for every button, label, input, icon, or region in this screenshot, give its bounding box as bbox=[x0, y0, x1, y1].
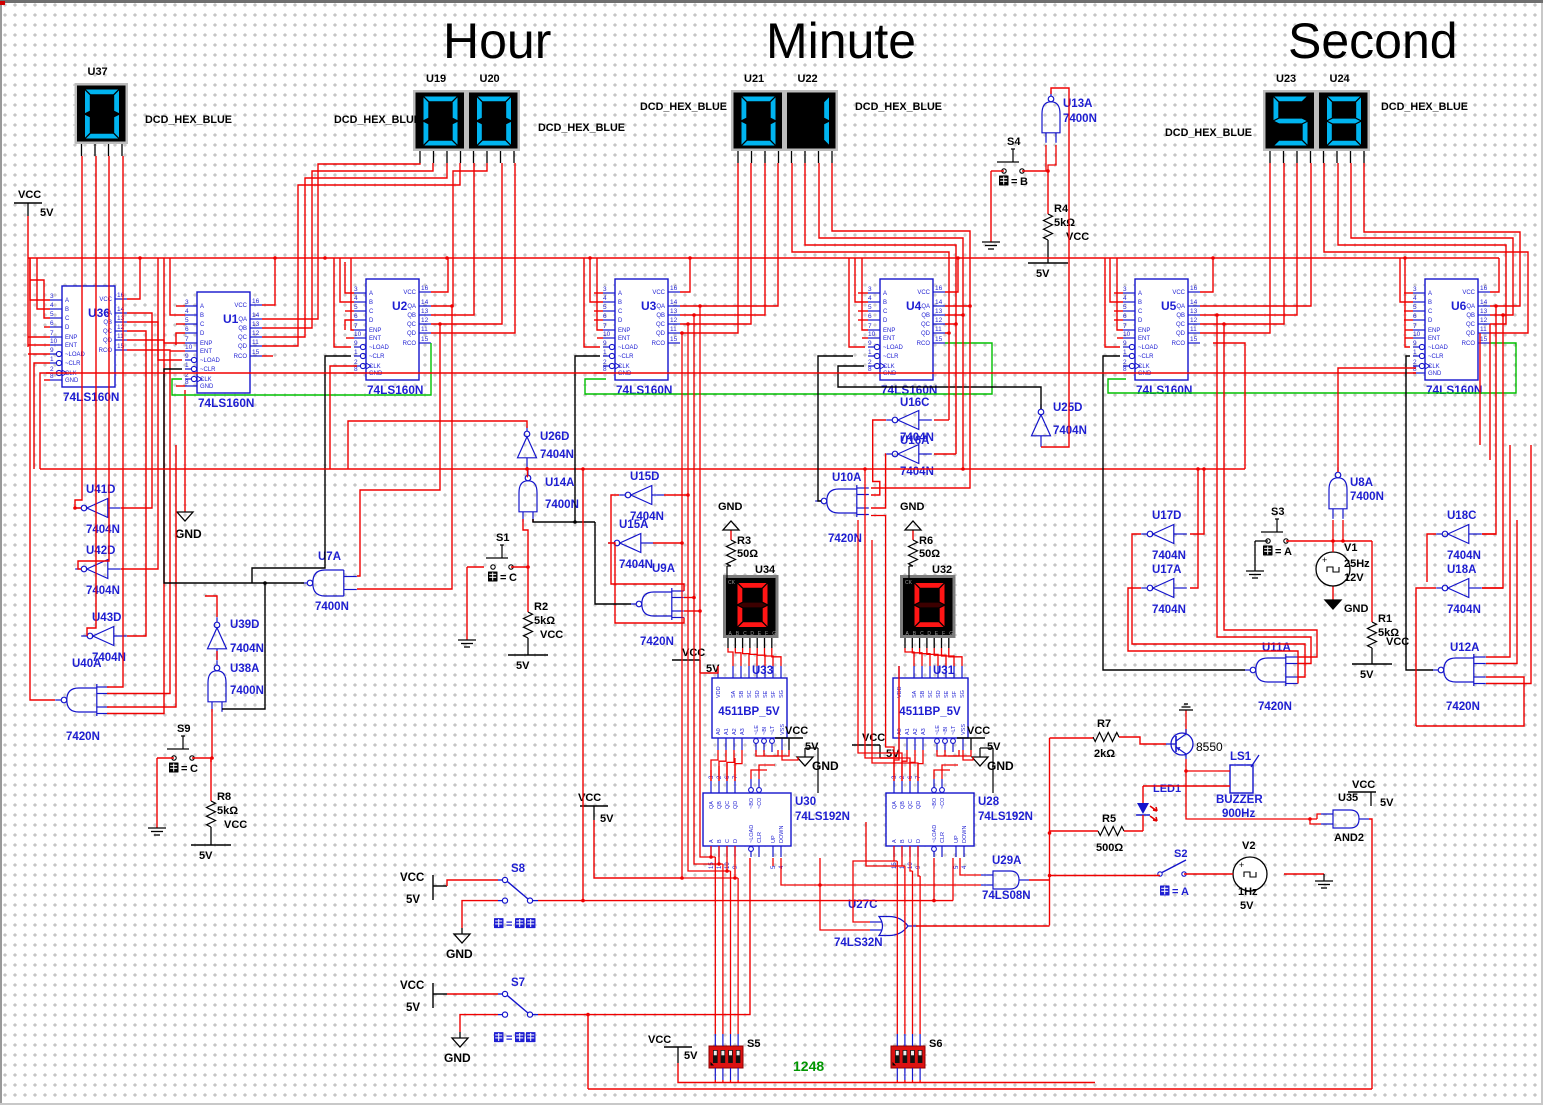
switch S3 key A bbox=[1275, 518, 1279, 520]
wire U40A inputs bbox=[107, 350, 170, 694]
svg-text:7404N: 7404N bbox=[1447, 550, 1481, 562]
svg-text:DCD_HEX_BLUE: DCD_HEX_BLUE bbox=[855, 101, 942, 113]
wire U3 ENP ENT bbox=[597, 258, 603, 330]
svg-text:C: C bbox=[65, 316, 70, 322]
svg-text:U16C: U16C bbox=[900, 397, 929, 409]
wire U1 VCC to bus bbox=[262, 258, 275, 305]
svg-text:74LS160N: 74LS160N bbox=[1136, 383, 1192, 397]
svg-text:GND: GND bbox=[900, 501, 925, 513]
svg-text:QA: QA bbox=[709, 801, 715, 809]
svg-text:U8A: U8A bbox=[1350, 477, 1373, 489]
wire U1 RCO stub bbox=[262, 355, 273, 357]
nand U38A 7400N bbox=[214, 665, 220, 671]
svg-text:ENP: ENP bbox=[1138, 328, 1150, 334]
svg-text:U42D: U42D bbox=[86, 545, 115, 557]
svg-text:D: D bbox=[369, 318, 374, 324]
svg-text:7404N: 7404N bbox=[1152, 604, 1186, 616]
svg-text:7400N: 7400N bbox=[1063, 113, 1097, 125]
svg-text:9: 9 bbox=[50, 347, 54, 354]
svg-text:QB: QB bbox=[656, 313, 665, 319]
svg-text:4: 4 bbox=[50, 302, 54, 309]
svg-text:U17D: U17D bbox=[1152, 510, 1181, 522]
svg-text:DCD_HEX_BLUE: DCD_HEX_BLUE bbox=[334, 114, 421, 126]
svg-text:UP: UP bbox=[954, 835, 960, 843]
wire U36 QD to U40A input bbox=[107, 340, 164, 714]
wire U35 inputs bbox=[1317, 814, 1321, 819]
svg-text:U6: U6 bbox=[1451, 299, 1467, 313]
svg-text:R3: R3 bbox=[737, 535, 751, 547]
svg-text:16: 16 bbox=[421, 285, 429, 292]
svg-text:VCC: VCC bbox=[18, 189, 41, 201]
svg-text:1: 1 bbox=[50, 356, 54, 363]
svg-text:5V: 5V bbox=[40, 207, 54, 219]
svg-text:CLK: CLK bbox=[200, 377, 212, 383]
svg-text:5V: 5V bbox=[406, 894, 420, 906]
svg-text:B: B bbox=[717, 839, 723, 843]
svg-text:LS1: LS1 bbox=[1230, 751, 1252, 763]
svg-text:3: 3 bbox=[1413, 286, 1417, 293]
svg-text:G: G bbox=[949, 631, 953, 637]
wire U38A left input to S9 bbox=[211, 709, 213, 758]
dip switch S6 bbox=[891, 1046, 925, 1068]
wire hour long verticals from U3 rows to S5 bundle bbox=[700, 306, 715, 857]
svg-text:~CLR: ~CLR bbox=[65, 361, 81, 367]
inverter U26D 7404N bbox=[524, 431, 530, 437]
svg-text:VCC: VCC bbox=[1352, 779, 1375, 791]
svg-text:VCC: VCC bbox=[234, 303, 247, 309]
wire U18C input from right bbox=[1482, 533, 1496, 535]
svg-text:3: 3 bbox=[603, 286, 607, 293]
power 5V bar R4 bbox=[1028, 262, 1068, 264]
wire U8A inputs down bbox=[1332, 520, 1334, 541]
svg-text:12: 12 bbox=[670, 317, 678, 324]
svg-text:GND: GND bbox=[812, 759, 839, 773]
svg-text:74LS160N: 74LS160N bbox=[198, 396, 254, 410]
svg-text:7420N: 7420N bbox=[66, 731, 100, 743]
counter U30 74LS192N bbox=[703, 793, 791, 846]
svg-text:7404N: 7404N bbox=[540, 449, 574, 461]
svg-text:25Hz: 25Hz bbox=[1344, 558, 1370, 570]
svg-text:2: 2 bbox=[354, 359, 358, 366]
resistor R2 5k bbox=[527, 567, 529, 612]
ground GND S7 bbox=[460, 1015, 498, 1032]
svg-text:8: 8 bbox=[603, 366, 607, 373]
svg-text:6: 6 bbox=[185, 326, 189, 333]
svg-text:Second: Second bbox=[1288, 13, 1458, 69]
svg-text:5: 5 bbox=[1413, 304, 1417, 311]
svg-text:ENT: ENT bbox=[65, 343, 77, 349]
wire U36 QC to U43D input bbox=[127, 331, 146, 636]
svg-text:U2: U2 bbox=[392, 299, 408, 313]
svg-text:=: = bbox=[506, 1033, 512, 1045]
ground GND U28 bbox=[972, 757, 988, 766]
switch S8 key space bbox=[502, 877, 507, 882]
wire S8 vcc feed bbox=[447, 880, 498, 886]
wire U6 GND stub bbox=[1413, 372, 1416, 374]
counter U28 74LS192N bbox=[886, 793, 974, 846]
svg-text:ENT: ENT bbox=[369, 336, 381, 342]
wire U27C input1 from U28 A column bbox=[853, 861, 894, 922]
svg-text:1Hz: 1Hz bbox=[1238, 886, 1258, 898]
wire green U6 RCO to U5 CLK bbox=[1108, 343, 1516, 393]
svg-text:15: 15 bbox=[1190, 336, 1198, 343]
inverter U17D 7404N bbox=[1147, 531, 1153, 537]
svg-text:15: 15 bbox=[252, 349, 260, 356]
svg-text:A: A bbox=[618, 291, 622, 297]
power 5V bar R8 bbox=[191, 844, 231, 846]
svg-text:11: 11 bbox=[1190, 326, 1197, 333]
svg-text:7: 7 bbox=[868, 323, 872, 330]
svg-text:R4: R4 bbox=[1054, 203, 1069, 215]
svg-text:1248: 1248 bbox=[793, 1058, 824, 1074]
svg-text:U26D: U26D bbox=[540, 431, 569, 443]
svg-text:6: 6 bbox=[603, 313, 607, 320]
wire U12A inputs right side bbox=[1486, 445, 1510, 657]
svg-text:2kΩ: 2kΩ bbox=[1094, 748, 1115, 760]
wire U33 A inputs to U30 bbox=[711, 750, 718, 781]
svg-text:U5: U5 bbox=[1161, 299, 1177, 313]
svg-text:CLK: CLK bbox=[618, 364, 630, 370]
svg-text:CLK: CLK bbox=[65, 371, 77, 377]
svg-text:ENT: ENT bbox=[883, 336, 895, 342]
power 5V bar R2 bbox=[508, 654, 548, 656]
resistor R4 5k bbox=[1047, 171, 1049, 214]
svg-text:4: 4 bbox=[603, 295, 607, 302]
svg-text:QB: QB bbox=[717, 801, 723, 809]
nand4 U10A 7420N bbox=[821, 498, 827, 504]
wire U5 VCC to bus bbox=[1200, 258, 1213, 292]
decoder U33 4511BP_5V bbox=[712, 678, 787, 738]
wire U5 ENP ENT bbox=[1117, 258, 1123, 330]
ground GND arrow left bbox=[184, 390, 186, 512]
svg-text:DOWN: DOWN bbox=[962, 826, 968, 843]
svg-text:SF: SF bbox=[771, 690, 777, 698]
svg-text:QD: QD bbox=[921, 331, 931, 337]
svg-text:U37: U37 bbox=[88, 66, 108, 78]
svg-text:~CLR: ~CLR bbox=[1428, 354, 1444, 360]
window border top bbox=[0, 0, 1543, 3]
svg-text:~CLR: ~CLR bbox=[618, 354, 634, 360]
svg-text:VCC: VCC bbox=[224, 819, 247, 831]
svg-text:5kΩ: 5kΩ bbox=[1054, 217, 1075, 229]
svg-text:QA: QA bbox=[238, 317, 247, 323]
wire U9A output black up to U14A bbox=[595, 522, 631, 604]
svg-text:VCC: VCC bbox=[917, 290, 930, 296]
svg-text:9: 9 bbox=[1123, 340, 1127, 347]
svg-text:5V: 5V bbox=[199, 850, 213, 862]
svg-text:VCC: VCC bbox=[1462, 290, 1475, 296]
svg-text:QD: QD bbox=[103, 338, 113, 344]
svg-text:16: 16 bbox=[670, 285, 678, 292]
svg-text:QC: QC bbox=[725, 801, 731, 809]
svg-text:7400N: 7400N bbox=[1350, 491, 1384, 503]
svg-text:D: D bbox=[927, 631, 931, 637]
ground earth V2 bbox=[1284, 873, 1324, 875]
wire U5 LOAD bbox=[1105, 258, 1120, 347]
wire U2 LOAD bbox=[334, 258, 351, 347]
wire U18C output down bbox=[1427, 534, 1436, 582]
wire U4 ENP ENT bbox=[862, 258, 868, 330]
svg-text:S4: S4 bbox=[1007, 136, 1021, 148]
ground earth transistor bbox=[1185, 710, 1187, 733]
svg-text:B: B bbox=[900, 839, 906, 843]
wire U16A input bbox=[934, 453, 956, 455]
wire S8 line end to U28 UP pin bbox=[952, 858, 954, 901]
svg-text:RCO: RCO bbox=[652, 341, 666, 347]
svg-text:VCC: VCC bbox=[400, 980, 424, 992]
svg-text:3: 3 bbox=[354, 286, 358, 293]
svg-text:D: D bbox=[1428, 318, 1433, 324]
svg-text:14: 14 bbox=[252, 312, 260, 319]
svg-text:SB: SB bbox=[739, 690, 745, 698]
svg-text:RCO: RCO bbox=[99, 348, 113, 354]
svg-text:QC: QC bbox=[1176, 322, 1186, 328]
wire U37 pin1 to U41D output bbox=[75, 156, 82, 508]
svg-text:5V: 5V bbox=[600, 813, 614, 825]
svg-text:11: 11 bbox=[670, 326, 677, 333]
svg-text:7420N: 7420N bbox=[640, 636, 674, 648]
svg-text:8: 8 bbox=[354, 366, 358, 373]
wire U3 GND stub bbox=[594, 372, 603, 374]
switch S7 key space bbox=[502, 991, 507, 996]
svg-text:U30: U30 bbox=[795, 796, 816, 808]
svg-text:C: C bbox=[190, 763, 198, 775]
svg-text:U34: U34 bbox=[755, 564, 776, 576]
svg-text:U36: U36 bbox=[88, 306, 110, 320]
svg-text:VCC: VCC bbox=[785, 725, 808, 737]
svg-text:A: A bbox=[200, 304, 204, 310]
svg-text:~CLR: ~CLR bbox=[1138, 354, 1154, 360]
wire U36 LOAD bbox=[28, 353, 50, 355]
nand4 U12A 7420N bbox=[1438, 667, 1444, 673]
svg-text:QB: QB bbox=[1466, 313, 1475, 319]
svg-text:RCO: RCO bbox=[234, 354, 248, 360]
svg-text:ENP: ENP bbox=[65, 335, 77, 341]
svg-text:~LOAD: ~LOAD bbox=[1138, 345, 1159, 351]
wire U2 inputs bbox=[345, 262, 354, 293]
wire minute verticals to U28 top bbox=[858, 520, 902, 781]
counter U36 74LS160N bbox=[62, 286, 115, 387]
svg-text:VCC: VCC bbox=[967, 725, 990, 737]
ground earth S9 bbox=[157, 757, 174, 759]
wire transistor emitter to buzzer node bbox=[1186, 759, 1218, 771]
svg-text:VCC: VCC bbox=[540, 629, 563, 641]
svg-text:B: B bbox=[1428, 300, 1432, 306]
wire U5 GND bbox=[46, 372, 1416, 374]
source V2 1Hz 5V bbox=[1233, 857, 1267, 891]
svg-text:15: 15 bbox=[1480, 336, 1488, 343]
inverter U18A 7404N bbox=[1442, 585, 1448, 591]
svg-text:QB: QB bbox=[1176, 313, 1185, 319]
wire U10A input1 from U4 QA vertical bbox=[871, 306, 970, 488]
decoder U31 4511BP_5V bbox=[893, 678, 968, 738]
wire S7 vcc feed bbox=[447, 993, 498, 995]
svg-text:U24: U24 bbox=[1330, 73, 1351, 85]
svg-text:CLK: CLK bbox=[1138, 364, 1150, 370]
svg-text:U12A: U12A bbox=[1450, 642, 1479, 654]
wire U31 A inputs to U28 bbox=[894, 750, 899, 781]
svg-text:S6: S6 bbox=[929, 1038, 942, 1050]
svg-text:11: 11 bbox=[421, 326, 428, 333]
svg-text:6: 6 bbox=[50, 320, 54, 327]
svg-text:U13A: U13A bbox=[1063, 98, 1092, 110]
wire U36 QA to U41D input bbox=[121, 313, 152, 508]
wire U3 Q outputs to U21 straight verticals bbox=[680, 163, 778, 306]
wire U32 segment pins to U31 bbox=[904, 638, 906, 648]
svg-text:=: = bbox=[1275, 546, 1281, 558]
svg-text:VCC: VCC bbox=[1172, 290, 1185, 296]
svg-text:LED1: LED1 bbox=[1153, 783, 1181, 795]
wire U4 GND stub bbox=[858, 372, 868, 374]
svg-text:C: C bbox=[369, 309, 374, 315]
svg-text:GND: GND bbox=[1138, 371, 1152, 377]
svg-text:~LOAD: ~LOAD bbox=[369, 345, 390, 351]
transistor Q1 8550 bbox=[1171, 733, 1193, 755]
wire U13A output down to U25D input bbox=[1041, 88, 1069, 447]
svg-text:14: 14 bbox=[1480, 299, 1488, 306]
svg-text:GND: GND bbox=[1428, 371, 1442, 377]
or U27C 74LS32N bbox=[879, 917, 908, 936]
wire U17D input bbox=[1190, 469, 1204, 534]
svg-text:BUZZER: BUZZER bbox=[1216, 794, 1263, 806]
svg-text:C: C bbox=[200, 322, 205, 328]
svg-text:+: + bbox=[1239, 860, 1244, 870]
svg-text:B: B bbox=[369, 300, 373, 306]
svg-text:S5: S5 bbox=[747, 1038, 760, 1050]
wire U29A output bbox=[1029, 879, 1050, 881]
wire branch down to bottom bus bbox=[587, 1015, 589, 1089]
wire U15D input from vertical bbox=[664, 494, 688, 496]
wire U2 ENP ENT bbox=[351, 258, 354, 330]
svg-text:7404N: 7404N bbox=[86, 524, 120, 536]
svg-text:5V: 5V bbox=[1240, 900, 1254, 912]
wire U36 CLK bbox=[40, 373, 50, 469]
svg-text:DCD_HEX_BLUE: DCD_HEX_BLUE bbox=[640, 101, 727, 113]
svg-text:U38A: U38A bbox=[230, 663, 259, 675]
nand4 U9A 7420N bbox=[636, 601, 642, 607]
svg-text:14: 14 bbox=[421, 299, 429, 306]
wire x583 vertical bbox=[582, 469, 584, 901]
wire U31 VSS to GND bbox=[963, 750, 973, 760]
wire S5 bottom pins to 5V feed bbox=[714, 1080, 716, 1083]
inverter U15D 7404N bbox=[625, 492, 631, 498]
svg-text:5V: 5V bbox=[406, 1002, 420, 1014]
svg-text:A2: A2 bbox=[913, 728, 919, 735]
svg-text:~LT: ~LT bbox=[770, 725, 776, 735]
svg-text:S8: S8 bbox=[511, 863, 526, 875]
svg-text:A: A bbox=[892, 839, 898, 843]
svg-text:7: 7 bbox=[603, 323, 607, 330]
svg-text:7400N: 7400N bbox=[545, 499, 579, 511]
svg-text:A3: A3 bbox=[740, 728, 746, 735]
svg-text:QA: QA bbox=[921, 304, 930, 310]
svg-text:SG: SG bbox=[960, 690, 966, 698]
wire U1 inputs bbox=[176, 305, 185, 307]
svg-text:U29A: U29A bbox=[992, 855, 1021, 867]
svg-text:U32: U32 bbox=[932, 564, 952, 576]
svg-text:QC: QC bbox=[1466, 322, 1476, 328]
svg-text:D: D bbox=[750, 631, 754, 637]
svg-text:DCD_HEX_BLUE: DCD_HEX_BLUE bbox=[1165, 127, 1252, 139]
wire U34 segment pins to U33 bbox=[727, 638, 729, 648]
wire bottom bus bbox=[588, 1088, 1372, 1090]
wire U6 Q down to U18 inputs bbox=[1482, 306, 1496, 534]
svg-text:5: 5 bbox=[868, 304, 872, 311]
inverter U42D 7404N bbox=[81, 566, 87, 572]
svg-text:QB: QB bbox=[407, 313, 416, 319]
svg-text:~CLR: ~CLR bbox=[883, 354, 899, 360]
svg-text:15: 15 bbox=[670, 336, 678, 343]
wire U4 VCC to bus bbox=[945, 258, 958, 292]
svg-text:QD: QD bbox=[733, 801, 739, 809]
svg-text:U10A: U10A bbox=[832, 472, 861, 484]
wire U31 LT BI to VCC bbox=[937, 750, 959, 756]
corner marker bbox=[0, 1, 5, 5]
svg-text:~BO: ~BO bbox=[932, 797, 938, 809]
svg-text:16: 16 bbox=[1480, 285, 1488, 292]
svg-text:10: 10 bbox=[354, 331, 362, 338]
svg-text:CLK: CLK bbox=[883, 364, 895, 370]
wire U27C output to junction vertical bbox=[916, 925, 1050, 927]
wire U4 LOAD bbox=[849, 258, 865, 347]
wire U7A inputs bbox=[357, 324, 440, 576]
wire S2 line bbox=[1050, 875, 1161, 877]
wire U6 Q outputs to U24 bracket bbox=[1364, 163, 1520, 306]
wire U28 bottom jog left bbox=[866, 822, 902, 866]
svg-text:10: 10 bbox=[50, 338, 58, 345]
svg-text:~BO: ~BO bbox=[749, 797, 755, 809]
svg-text:C: C bbox=[1138, 309, 1143, 315]
wire U13A inputs bbox=[1045, 145, 1047, 171]
LED LED1 bbox=[1137, 803, 1149, 814]
svg-text:2: 2 bbox=[868, 359, 872, 366]
svg-text:A: A bbox=[883, 291, 887, 297]
svg-text:6: 6 bbox=[354, 313, 358, 320]
svg-text:U14A: U14A bbox=[545, 477, 574, 489]
svg-text:6: 6 bbox=[1413, 313, 1417, 320]
svg-text:74LS08N: 74LS08N bbox=[982, 890, 1031, 902]
wire U37 pin3 to U42D output bbox=[78, 156, 109, 569]
svg-text:U28: U28 bbox=[978, 796, 1000, 808]
svg-text:C: C bbox=[743, 631, 747, 637]
wire U10A input4 down to U28 QA pin bbox=[871, 516, 894, 782]
svg-text:D: D bbox=[65, 325, 70, 331]
svg-text:QD: QD bbox=[1466, 331, 1476, 337]
svg-text:7400N: 7400N bbox=[315, 601, 349, 613]
wire U36 GND stub bbox=[44, 379, 50, 381]
svg-text:5V: 5V bbox=[516, 660, 530, 672]
switch S2 key A bbox=[1158, 872, 1162, 876]
svg-text:U18C: U18C bbox=[1447, 510, 1476, 522]
svg-text:5kΩ: 5kΩ bbox=[217, 805, 238, 817]
svg-text:D: D bbox=[200, 331, 205, 337]
ground earth S3 bbox=[1255, 540, 1268, 542]
svg-text:A: A bbox=[65, 298, 69, 304]
svg-text:GND: GND bbox=[987, 759, 1014, 773]
inverter U25D 7404N bbox=[1038, 409, 1044, 415]
svg-text:R8: R8 bbox=[217, 791, 231, 803]
svg-text:U19: U19 bbox=[426, 73, 446, 85]
resistor R6 50 bbox=[912, 530, 914, 540]
svg-text:900Hz: 900Hz bbox=[1222, 808, 1255, 820]
svg-text:DCD_HEX_BLUE: DCD_HEX_BLUE bbox=[145, 114, 232, 126]
svg-text:5: 5 bbox=[354, 304, 358, 311]
wire U33 VSS to GND bbox=[782, 750, 798, 760]
wire S5 VCC tap feed line bbox=[677, 1047, 679, 1063]
svg-text:74LS160N: 74LS160N bbox=[881, 383, 937, 397]
wire U2 VCC to bus bbox=[431, 258, 448, 292]
svg-text:1: 1 bbox=[354, 349, 358, 356]
